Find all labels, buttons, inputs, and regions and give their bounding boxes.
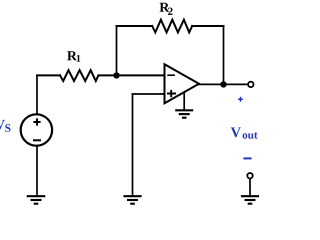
wire: feedback top right segment (192, 25, 223, 27)
ground (right, under lower terminal) (241, 196, 259, 204)
wire: R1 right lead to op-amp inverting input (98, 74, 164, 76)
node junction dot at inverting input (113, 72, 119, 78)
wire: feedback left vertical from node A down to inverting input node (116, 26, 118, 75)
node junction dot at output (220, 81, 226, 87)
wire: below source to ground (36, 146, 38, 195)
label VS (0, 120, 5, 130)
ground (middle, noninverting input) (123, 196, 141, 204)
output terminal (open circle, +) (248, 82, 253, 87)
output minus sign (blue) (243, 157, 251, 159)
resistor R1 (60, 70, 98, 81)
wire: op-amp output to terminal (199, 83, 247, 85)
ground (op-amp) (175, 110, 193, 117)
wire: feedback right vertical down to output node (223, 26, 225, 84)
label R2 (160, 3, 170, 12)
wire: left rail to R1 left lead (37, 74, 60, 76)
wire: feedback top left segment (117, 25, 153, 27)
resistor R2 (152, 20, 192, 33)
op-amp plus marker (167, 90, 176, 97)
lower terminal (open circle, -) (247, 173, 252, 178)
wire: stub from lower terminal to ground (249, 179, 251, 196)
source minus marker (33, 139, 41, 141)
output plus sign (blue) (238, 97, 243, 102)
wire: op-amp ground stub (183, 93, 185, 111)
wire: noninverting input vertical down to ground (132, 94, 134, 195)
wire: left rail from R1 down to source top (36, 75, 38, 114)
wire: noninverting input horizontal (133, 93, 165, 95)
op-amp U1 triangle (165, 64, 200, 103)
label Vout (231, 127, 241, 137)
op-amp minus marker (167, 74, 175, 76)
source plus marker (33, 118, 40, 125)
voltage source VS circle (21, 114, 52, 145)
ground (left, under source) (27, 196, 46, 204)
label R1 (67, 51, 77, 60)
